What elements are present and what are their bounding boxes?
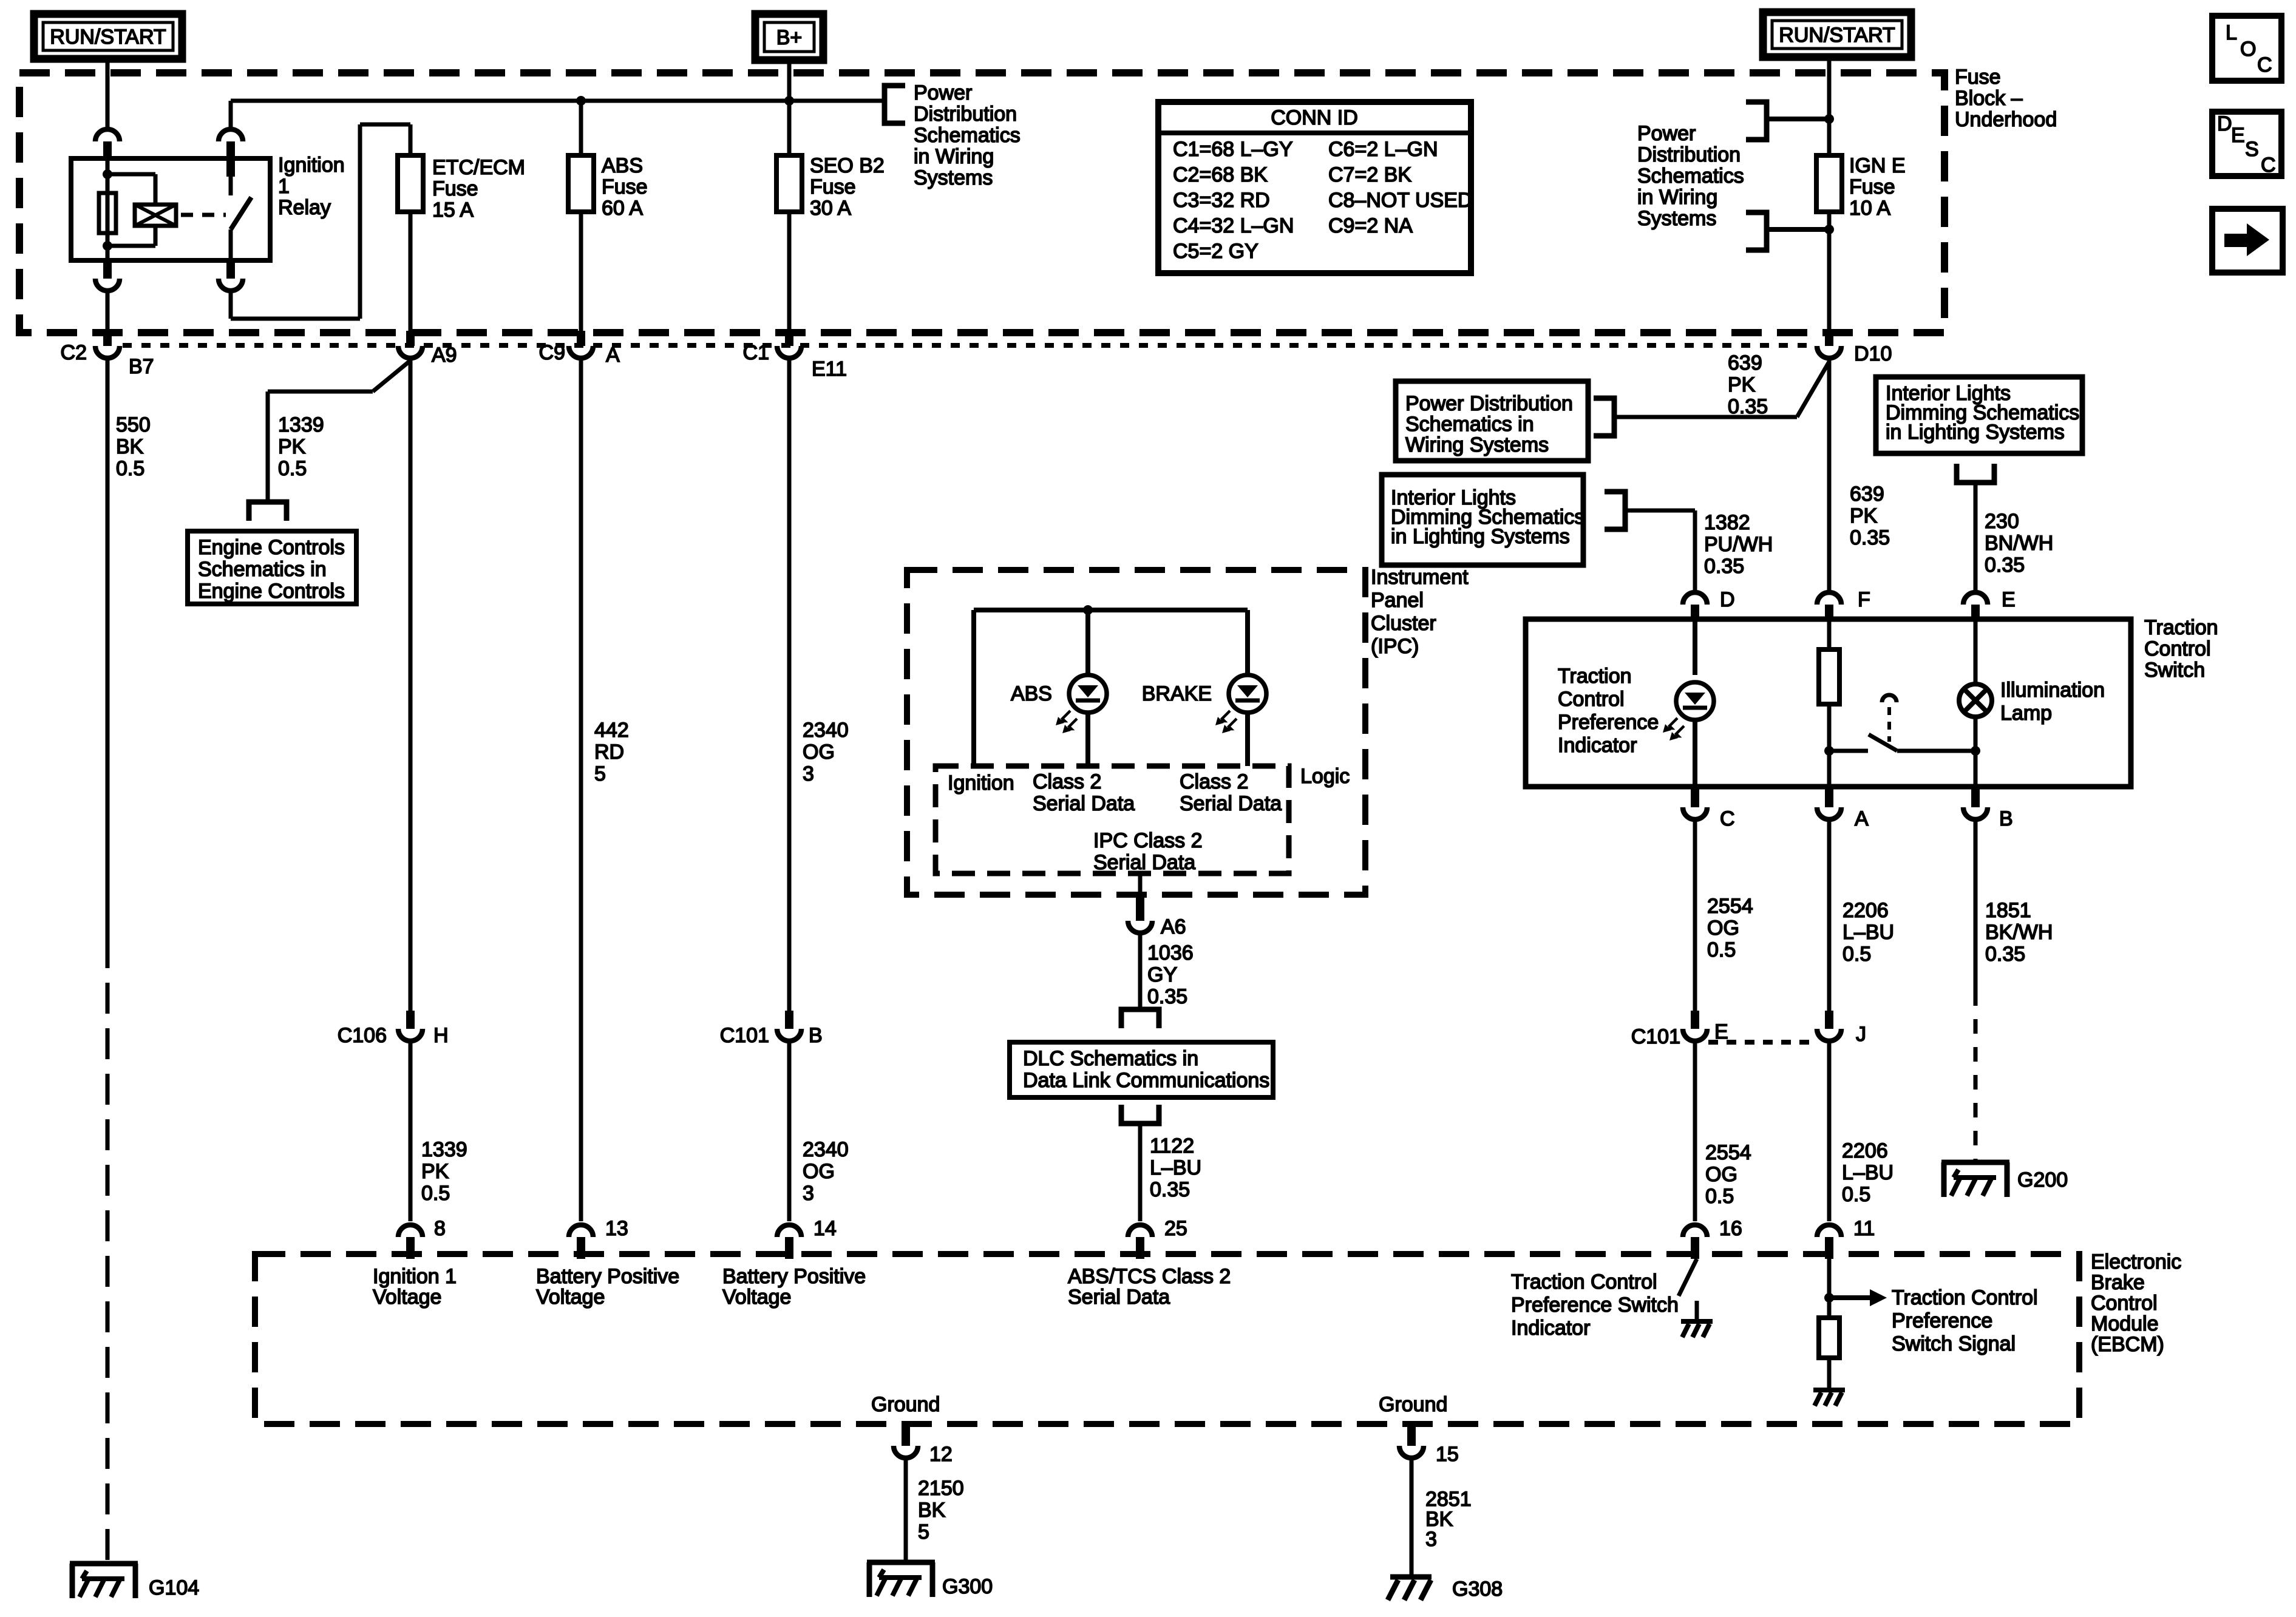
svg-text:60 A: 60 A [602, 197, 643, 220]
svg-text:Fuse: Fuse [1955, 66, 2001, 89]
svg-text:1036: 1036 [1147, 941, 1194, 964]
svg-text:BRAKE: BRAKE [1142, 682, 1212, 705]
svg-text:5: 5 [594, 762, 606, 785]
svg-text:C9: C9 [539, 341, 565, 364]
svg-text:Traction Control: Traction Control [1892, 1286, 2038, 1309]
svg-text:B+: B+ [776, 26, 803, 49]
svg-text:14: 14 [813, 1217, 837, 1240]
svg-text:C106: C106 [338, 1024, 387, 1047]
svg-text:B7: B7 [129, 355, 154, 378]
svg-text:2340: 2340 [803, 1138, 849, 1161]
svg-text:2206: 2206 [1843, 899, 1889, 922]
svg-text:1382: 1382 [1704, 511, 1750, 534]
svg-text:L–BU: L–BU [1150, 1156, 1201, 1179]
svg-text:Wiring Systems: Wiring Systems [1405, 433, 1549, 456]
svg-text:(EBCM): (EBCM) [2091, 1333, 2164, 1356]
svg-text:12: 12 [929, 1443, 953, 1466]
svg-text:Logic: Logic [1300, 765, 1350, 788]
svg-text:D: D [1720, 588, 1735, 611]
svg-text:Preference: Preference [1558, 711, 1659, 734]
svg-text:DLC Schematics in: DLC Schematics in [1023, 1047, 1198, 1070]
svg-text:Class 2: Class 2 [1180, 770, 1248, 793]
svg-text:13: 13 [605, 1217, 628, 1240]
svg-text:IGN E: IGN E [1849, 154, 1906, 177]
svg-text:25: 25 [1164, 1217, 1187, 1240]
svg-text:Switch: Switch [2144, 659, 2205, 682]
svg-text:Voltage: Voltage [373, 1286, 441, 1309]
svg-text:0.5: 0.5 [278, 457, 307, 480]
svg-text:Power: Power [1637, 122, 1696, 145]
svg-text:in Wiring: in Wiring [914, 145, 994, 168]
svg-text:L: L [2226, 21, 2237, 44]
svg-text:D: D [2217, 112, 2232, 135]
svg-text:Schematics in: Schematics in [1405, 413, 1534, 436]
svg-text:Fuse: Fuse [602, 175, 648, 198]
svg-text:in Wiring: in Wiring [1637, 186, 1717, 209]
svg-text:Engine Controls: Engine Controls [198, 536, 345, 559]
svg-text:C3=32 RD: C3=32 RD [1173, 189, 1270, 212]
svg-text:Data Link Communications: Data Link Communications [1023, 1069, 1269, 1092]
svg-text:L–BU: L–BU [1843, 921, 1894, 944]
svg-text:Switch Signal: Switch Signal [1892, 1332, 2016, 1355]
svg-text:Serial Data: Serial Data [1180, 792, 1282, 815]
svg-text:Lamp: Lamp [2000, 702, 2052, 725]
svg-text:B: B [1999, 807, 2013, 830]
svg-text:C101: C101 [1631, 1025, 1680, 1048]
svg-text:S: S [2245, 138, 2259, 161]
svg-text:in Lighting Systems: in Lighting Systems [1886, 421, 2065, 444]
svg-text:PU/WH: PU/WH [1704, 533, 1773, 556]
svg-text:Ignition: Ignition [278, 154, 345, 177]
svg-text:0.5: 0.5 [1707, 938, 1736, 961]
svg-text:E: E [2002, 588, 2016, 611]
svg-text:2554: 2554 [1705, 1141, 1751, 1164]
svg-text:0.35: 0.35 [1985, 943, 2025, 966]
svg-text:C9=2 NA: C9=2 NA [1328, 214, 1413, 237]
svg-text:442: 442 [594, 719, 629, 742]
svg-text:Control: Control [2144, 637, 2211, 660]
svg-text:C6=2 L–GN: C6=2 L–GN [1328, 138, 1438, 161]
svg-text:A: A [1855, 807, 1869, 830]
svg-text:Distribution: Distribution [1637, 143, 1741, 166]
svg-text:Underhood: Underhood [1955, 108, 2057, 131]
svg-text:Battery Positive: Battery Positive [536, 1265, 679, 1288]
svg-text:Traction: Traction [1558, 665, 1632, 688]
svg-text:ABS: ABS [1011, 682, 1052, 705]
svg-text:RUN/START: RUN/START [50, 25, 166, 49]
svg-text:OG: OG [1705, 1163, 1737, 1186]
svg-text:Schematics: Schematics [914, 124, 1021, 147]
svg-text:Traction: Traction [2144, 616, 2218, 639]
svg-text:Module: Module [2091, 1312, 2159, 1335]
svg-text:Distribution: Distribution [914, 103, 1017, 126]
svg-text:RUN/START: RUN/START [1779, 24, 1895, 47]
svg-text:C: C [2261, 154, 2276, 177]
svg-text:Panel: Panel [1371, 589, 1424, 612]
svg-text:C1: C1 [743, 341, 769, 364]
svg-text:1851: 1851 [1985, 899, 2031, 922]
svg-text:C2=68 BK: C2=68 BK [1173, 163, 1268, 186]
svg-text:D10: D10 [1854, 342, 1892, 365]
svg-text:Instrument: Instrument [1371, 566, 1469, 589]
svg-text:OG: OG [1707, 917, 1739, 940]
svg-text:E11: E11 [812, 358, 847, 381]
svg-text:0.5: 0.5 [421, 1182, 450, 1205]
svg-text:(IPC): (IPC) [1371, 635, 1419, 658]
svg-text:1339: 1339 [278, 413, 324, 436]
svg-text:Brake: Brake [2091, 1271, 2145, 1294]
svg-text:Cluster: Cluster [1371, 612, 1436, 635]
svg-text:2150: 2150 [918, 1477, 964, 1500]
svg-text:0.35: 0.35 [1850, 526, 1890, 549]
svg-text:3: 3 [803, 762, 814, 785]
svg-text:C4=32 L–GN: C4=32 L–GN [1173, 214, 1294, 237]
svg-text:0.5: 0.5 [1705, 1185, 1734, 1208]
svg-text:OG: OG [803, 1160, 835, 1183]
svg-text:Battery Positive: Battery Positive [722, 1265, 866, 1288]
svg-text:1122: 1122 [1150, 1134, 1194, 1158]
svg-text:550: 550 [116, 413, 151, 436]
svg-text:0.35: 0.35 [1704, 555, 1744, 578]
svg-text:1339: 1339 [421, 1138, 467, 1161]
svg-text:2340: 2340 [803, 719, 849, 742]
svg-text:Serial Data: Serial Data [1068, 1286, 1170, 1309]
svg-text:3: 3 [1425, 1528, 1437, 1551]
svg-text:Electronic: Electronic [2091, 1250, 2181, 1273]
svg-text:PK: PK [421, 1160, 449, 1183]
svg-text:A9: A9 [432, 344, 457, 367]
svg-text:A: A [606, 344, 620, 367]
svg-text:Preference Switch: Preference Switch [1511, 1293, 1679, 1317]
svg-text:0.5: 0.5 [116, 457, 144, 480]
svg-text:G300: G300 [942, 1575, 993, 1598]
svg-text:BK/WH: BK/WH [1985, 921, 2053, 944]
svg-text:16: 16 [1719, 1217, 1742, 1240]
svg-text:G104: G104 [149, 1576, 199, 1599]
svg-text:0.35: 0.35 [1147, 985, 1187, 1008]
svg-text:8: 8 [434, 1217, 446, 1240]
svg-text:1: 1 [278, 175, 290, 198]
svg-text:BN/WH: BN/WH [1985, 532, 2053, 555]
svg-text:Schematics in: Schematics in [198, 558, 327, 581]
svg-text:230: 230 [1985, 510, 2019, 533]
svg-text:OG: OG [803, 741, 835, 764]
svg-text:Ignition: Ignition [948, 771, 1014, 795]
svg-text:C8–NOT USED: C8–NOT USED [1328, 189, 1472, 212]
svg-text:639: 639 [1850, 483, 1884, 506]
svg-text:Relay: Relay [278, 196, 331, 219]
svg-text:C101: C101 [720, 1024, 769, 1047]
svg-text:Fuse: Fuse [432, 177, 478, 200]
svg-text:Systems: Systems [914, 166, 993, 189]
svg-text:O: O [2240, 38, 2256, 61]
svg-text:F: F [1858, 588, 1870, 611]
svg-text:ETC/ECM: ETC/ECM [432, 156, 525, 179]
svg-text:10 A: 10 A [1849, 197, 1890, 220]
svg-text:PK: PK [278, 435, 306, 458]
svg-text:L–BU: L–BU [1842, 1161, 1894, 1184]
svg-text:Voltage: Voltage [722, 1286, 791, 1309]
svg-text:Fuse: Fuse [810, 175, 856, 198]
svg-text:Serial Data: Serial Data [1093, 851, 1195, 874]
svg-text:C2: C2 [61, 341, 87, 364]
svg-text:Traction Control: Traction Control [1511, 1270, 1657, 1293]
svg-text:GY: GY [1147, 963, 1177, 986]
svg-text:0.35: 0.35 [1728, 395, 1768, 418]
svg-text:11: 11 [1853, 1217, 1875, 1240]
svg-text:0.35: 0.35 [1150, 1178, 1190, 1201]
svg-text:H: H [433, 1024, 449, 1047]
svg-text:PK: PK [1728, 373, 1756, 396]
svg-text:Fuse: Fuse [1849, 175, 1895, 198]
svg-text:E: E [2231, 124, 2245, 147]
svg-text:Power: Power [914, 81, 972, 104]
svg-text:C: C [1720, 807, 1735, 830]
svg-text:C: C [2257, 53, 2272, 76]
svg-text:3: 3 [803, 1182, 814, 1205]
svg-text:Preference: Preference [1892, 1309, 1992, 1332]
svg-text:SEO B2: SEO B2 [810, 154, 885, 177]
svg-text:30 A: 30 A [810, 197, 851, 220]
svg-text:C7=2 BK: C7=2 BK [1328, 163, 1411, 186]
svg-text:in Lighting Systems: in Lighting Systems [1391, 525, 1570, 548]
svg-text:0.5: 0.5 [1843, 943, 1871, 966]
svg-text:0.5: 0.5 [1842, 1183, 1870, 1206]
svg-text:C5=2 GY: C5=2 GY [1173, 240, 1258, 263]
svg-text:PK: PK [1850, 504, 1878, 527]
svg-text:639: 639 [1728, 351, 1762, 375]
svg-text:J: J [1856, 1023, 1866, 1046]
svg-text:0.35: 0.35 [1985, 554, 2025, 577]
svg-text:C1=68 L–GY: C1=68 L–GY [1173, 138, 1293, 161]
svg-text:Illumination: Illumination [2000, 679, 2105, 702]
svg-text:ABS: ABS [602, 154, 643, 177]
svg-text:Serial Data: Serial Data [1033, 792, 1135, 815]
svg-text:Control: Control [1558, 688, 1625, 711]
svg-text:Ground: Ground [1379, 1393, 1447, 1416]
svg-text:Ground: Ground [871, 1393, 940, 1416]
svg-text:Systems: Systems [1637, 207, 1716, 230]
svg-text:ABS/TCS Class 2: ABS/TCS Class 2 [1068, 1265, 1231, 1288]
svg-text:G308: G308 [1452, 1578, 1503, 1601]
svg-text:Schematics: Schematics [1637, 164, 1744, 188]
svg-text:BK: BK [918, 1499, 946, 1522]
svg-text:Class 2: Class 2 [1033, 770, 1101, 793]
svg-text:Indicator: Indicator [1511, 1317, 1590, 1340]
svg-text:G200: G200 [2017, 1168, 2068, 1192]
svg-text:Power Distribution: Power Distribution [1405, 392, 1573, 415]
svg-text:A6: A6 [1161, 915, 1186, 938]
svg-text:B: B [809, 1024, 823, 1047]
svg-text:Control: Control [2091, 1292, 2158, 1315]
svg-text:CONN ID: CONN ID [1271, 106, 1358, 129]
svg-text:2206: 2206 [1842, 1139, 1888, 1162]
svg-text:5: 5 [918, 1520, 929, 1544]
svg-text:BK: BK [116, 435, 144, 458]
svg-text:Indicator: Indicator [1558, 734, 1637, 757]
svg-text:RD: RD [594, 741, 624, 764]
svg-text:Block –: Block – [1955, 87, 2023, 110]
svg-text:Engine Controls: Engine Controls [198, 580, 345, 603]
svg-text:Ignition 1: Ignition 1 [373, 1265, 457, 1288]
svg-text:15 A: 15 A [432, 198, 474, 222]
svg-text:2554: 2554 [1707, 895, 1753, 918]
svg-text:Voltage: Voltage [536, 1286, 605, 1309]
svg-text:15: 15 [1436, 1443, 1459, 1466]
svg-text:IPC Class 2: IPC Class 2 [1093, 829, 1203, 852]
